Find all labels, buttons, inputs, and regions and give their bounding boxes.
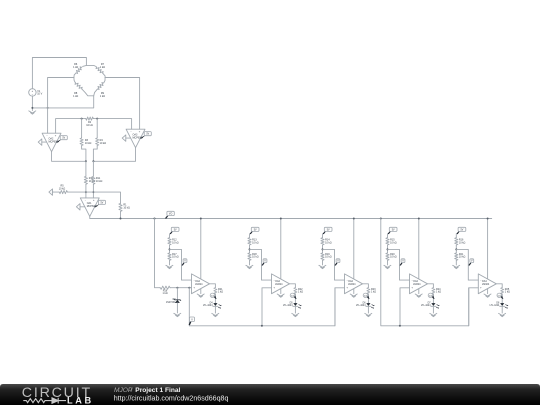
- svg-text:5V: 5V: [174, 229, 177, 231]
- wire feedback top rail: [56, 118, 132, 134]
- node +5V flag stage 5: [456, 230, 461, 234]
- resistor R16: [160, 286, 171, 295]
- svg-text:10 kΩ: 10 kΩ: [100, 142, 107, 145]
- voltage source V1: [29, 89, 43, 97]
- svg-text:LM324: LM324: [482, 283, 490, 286]
- resistor R3: [80, 119, 92, 162]
- svg-text:VO: VO: [169, 213, 173, 215]
- node VT2 flag: [262, 261, 266, 266]
- wire divider tap stage 1: [170, 249, 192, 280]
- node LED flag stage 2: [294, 296, 297, 300]
- resistor RD4b: [386, 253, 397, 265]
- wire OA3 output: [92, 148, 135, 163]
- node LED flag stage 4: [432, 296, 435, 300]
- wire divider tap stage 2: [250, 249, 272, 280]
- resistor RD4a: [386, 234, 397, 253]
- ground LED stage 2: [292, 313, 299, 316]
- resistor RO5: [501, 287, 510, 303]
- resistor R10: [84, 161, 95, 198]
- svg-text:LTL-4224: LTL-4224: [356, 305, 366, 307]
- node LED flag stage 5: [500, 296, 503, 300]
- ground op-amp stage 2: [277, 294, 284, 297]
- svg-text:LM324: LM324: [275, 283, 283, 286]
- wire bridge right node to op-amp OA3 input: [105, 78, 140, 130]
- resistor R2: [85, 117, 93, 127]
- wire V- stage 1: [200, 289, 202, 294]
- wire V1 bottom to ground and bridge bottom: [31, 96, 93, 111]
- op-amp OA4 stage 1: [192, 274, 210, 294]
- ground LED stage 4: [430, 313, 437, 316]
- wire V- stage 3: [353, 289, 355, 294]
- svg-text:10 kΩ: 10 kΩ: [252, 256, 259, 259]
- resistor RD5a: [455, 234, 466, 253]
- wire signal node down: [188, 288, 190, 326]
- footer title text: [114, 387, 229, 403]
- svg-text:1 kΩ: 1 kΩ: [73, 66, 78, 69]
- resistor R4: [93, 119, 106, 162]
- ground LED stage 3: [365, 313, 372, 316]
- svg-text:1 kΩ: 1 kΩ: [298, 291, 303, 294]
- wire V- stage 4: [418, 289, 420, 294]
- resistor R8 bridge bottom-left: [73, 78, 94, 98]
- wire V- stage 5: [487, 289, 489, 294]
- svg-text:LTL-4224: LTL-4224: [283, 305, 293, 307]
- wire output stage 1: [210, 284, 216, 288]
- resistor RO3: [367, 287, 376, 303]
- ground divider stage 2: [246, 265, 253, 268]
- wire signal chain segment 2: [381, 219, 469, 327]
- wire V- stage 2: [280, 289, 282, 294]
- svg-text:1 kΩ: 1 kΩ: [162, 292, 167, 295]
- LED D7: [421, 302, 439, 313]
- node LED flag stage 1: [214, 296, 217, 300]
- svg-text:1 kΩ: 1 kΩ: [505, 291, 510, 294]
- LED D6: [356, 302, 374, 313]
- node VT3 flag: [335, 261, 339, 266]
- svg-text:10 kΩ: 10 kΩ: [252, 241, 259, 244]
- svg-text:10 kΩ: 10 kΩ: [96, 180, 103, 183]
- wire lower input stage 2: [262, 288, 272, 326]
- ground zener: [174, 313, 181, 316]
- wire output stage 2: [290, 284, 296, 288]
- wire V+ supply stage 1: [200, 218, 202, 279]
- svg-text:10 kΩ: 10 kΩ: [459, 241, 466, 244]
- resistor RO4: [432, 287, 441, 303]
- LED D4: [203, 302, 221, 313]
- wire zener node: [171, 287, 192, 289]
- wire divider tap stage 4: [388, 249, 410, 280]
- svg-text:LM324: LM324: [348, 283, 356, 286]
- wire V1 top to bridge top: [32, 58, 86, 89]
- svg-text:10 kΩ: 10 kΩ: [325, 256, 332, 259]
- node VT4 flag: [400, 261, 404, 266]
- resistor R5: [52, 185, 120, 203]
- wire V+ supply stage 3: [353, 218, 355, 279]
- wire V+ supply stage 5: [487, 218, 489, 279]
- wire lower input stage 5: [469, 288, 479, 326]
- svg-text:10 kΩ: 10 kΩ: [123, 207, 130, 210]
- svg-text:10 kΩ: 10 kΩ: [390, 256, 397, 259]
- op-amp OA2: [38, 133, 67, 152]
- svg-text:1N4733A: 1N4733A: [166, 301, 176, 304]
- op-amp OA6 stage 3: [345, 274, 363, 294]
- wire lower input stage 4: [400, 288, 410, 326]
- svg-text:10 V: 10 V: [37, 93, 42, 96]
- op-amp OA5 stage 2: [272, 274, 290, 294]
- ground divider stage 5: [453, 265, 460, 268]
- resistor RD3a: [321, 234, 332, 253]
- resistor RO2: [294, 287, 303, 303]
- resistor RD1a: [168, 234, 179, 253]
- svg-text:1 kΩ: 1 kΩ: [100, 66, 105, 69]
- svg-text:LTL-4224: LTL-4224: [203, 305, 213, 307]
- node +5V flag stage 2: [250, 230, 255, 234]
- op-amp OA8 stage 5: [478, 274, 496, 294]
- svg-text:1 kΩ: 1 kΩ: [371, 291, 376, 294]
- svg-text:1 kΩ: 1 kΩ: [436, 291, 441, 294]
- svg-text:LAB: LAB: [67, 395, 94, 405]
- ground op-amp stage 3: [350, 294, 357, 297]
- resistor R6 bridge top-left: [73, 63, 86, 77]
- svg-text:10 kΩ: 10 kΩ: [172, 241, 179, 244]
- wire V+ supply stage 2: [280, 218, 282, 279]
- node LED flag stage 3: [367, 296, 370, 300]
- resistor R9 bridge bottom-right: [94, 78, 105, 98]
- resistor RD1b: [168, 253, 179, 265]
- wire bus to R16: [155, 219, 160, 288]
- ground divider stage 1: [166, 265, 173, 268]
- wire V+ supply stage 4: [418, 218, 420, 279]
- svg-text:-: -: [85, 198, 86, 202]
- wire divider tap stage 3: [323, 249, 345, 280]
- resistor R1: [119, 203, 130, 219]
- ground divider stage 4: [384, 265, 391, 268]
- resistor R7 bridge top-right: [86, 63, 105, 77]
- node +5V flag stage 3: [323, 230, 328, 234]
- svg-text:LM324: LM324: [195, 283, 203, 286]
- ground op-amp stage 4: [415, 294, 422, 297]
- resistor R11: [92, 161, 103, 198]
- svg-text:LTL-4224: LTL-4224: [490, 305, 500, 307]
- svg-text:10 kΩ: 10 kΩ: [85, 142, 92, 145]
- node +5V flag stage 1: [170, 230, 175, 234]
- ground op-amp stage 1: [197, 294, 204, 297]
- svg-text:1 kΩ: 1 kΩ: [100, 95, 105, 98]
- ground LED stage 5: [499, 313, 506, 316]
- wire signal chain segment 1: [189, 288, 335, 327]
- LED D5: [283, 302, 301, 313]
- node +5V flag stage 4: [388, 230, 393, 234]
- svg-text:Project 1 Final: Project 1 Final: [135, 387, 180, 394]
- wire output stage 5: [496, 284, 502, 288]
- wire output stage 4: [428, 284, 434, 288]
- svg-text:5V: 5V: [146, 134, 149, 136]
- node VT1 flag: [182, 261, 186, 266]
- svg-text:http://circuitlab.com/cdw2n6sd: http://circuitlab.com/cdw2n6sd66q8q: [114, 394, 229, 402]
- svg-text:LTL-4224: LTL-4224: [421, 305, 431, 307]
- svg-text:5V: 5V: [62, 138, 65, 140]
- svg-text:1 kΩ: 1 kΩ: [73, 95, 78, 98]
- svg-text:10 kΩ: 10 kΩ: [86, 124, 93, 127]
- wire bridge left node to op-amp OA2 input: [48, 78, 74, 134]
- resistor RD3b: [321, 253, 332, 265]
- node VOUT flag: [165, 214, 170, 219]
- resistor RD2a: [248, 234, 259, 253]
- svg-text:5V: 5V: [461, 229, 464, 231]
- zener diode D2: [166, 288, 181, 313]
- svg-text:10 kΩ: 10 kΩ: [390, 241, 397, 244]
- svg-text:10 kΩ: 10 kΩ: [325, 241, 332, 244]
- svg-text:10 kΩ: 10 kΩ: [172, 256, 179, 259]
- logo CIRCUIT LAB: [22, 385, 94, 405]
- wire OA2 output: [52, 152, 87, 163]
- svg-text:5V: 5V: [101, 202, 104, 204]
- svg-text:10 kΩ: 10 kΩ: [59, 188, 66, 191]
- ground divider stage 3: [319, 265, 326, 268]
- op-amp OA7 stage 4: [410, 274, 428, 294]
- LED D8: [490, 302, 508, 313]
- node VT5 flag: [468, 261, 472, 266]
- svg-text:/: /: [131, 387, 133, 394]
- svg-text:-: -: [47, 133, 48, 137]
- op-amp OA1: [76, 198, 105, 217]
- svg-text:LM324: LM324: [413, 283, 421, 286]
- ground LED stage 1: [212, 313, 219, 316]
- resistor RO1: [214, 287, 223, 303]
- node VS flag: [189, 320, 193, 325]
- resistor RD5b: [455, 253, 466, 265]
- port VREF arrow: [49, 189, 53, 195]
- resistor RD2b: [248, 253, 259, 265]
- ground op-amp stage 5: [484, 294, 491, 297]
- svg-text:5V: 5V: [254, 229, 257, 231]
- wire lower input stage 3: [335, 288, 345, 326]
- svg-text:-: -: [131, 129, 132, 133]
- wire divider tap stage 5: [456, 249, 478, 280]
- svg-text:5V: 5V: [392, 229, 395, 231]
- svg-text:1 kΩ: 1 kΩ: [218, 291, 223, 294]
- svg-text:5V: 5V: [327, 229, 330, 231]
- svg-text:10 kΩ: 10 kΩ: [459, 256, 466, 259]
- ground at V1: [29, 111, 36, 114]
- op-amp OA3: [122, 129, 151, 148]
- wire output bus: [90, 216, 492, 219]
- wire output stage 3: [363, 284, 369, 288]
